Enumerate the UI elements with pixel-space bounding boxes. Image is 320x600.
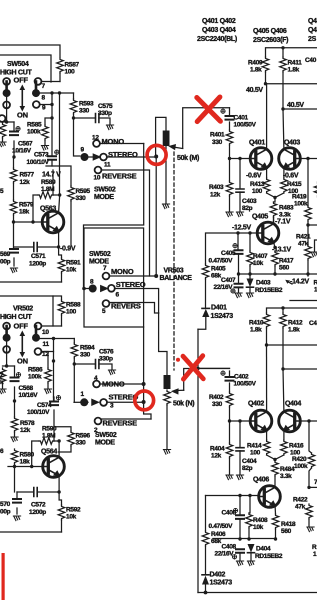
svg-text:40.5V: 40.5V: [246, 87, 263, 94]
svg-text:100/50V: 100/50V: [234, 381, 257, 388]
ground C570: [13, 516, 20, 521]
svg-text:Q402: Q402: [248, 401, 264, 408]
svg-text:OFF: OFF: [14, 76, 29, 85]
capacitor C402: [229, 371, 231, 392]
wire mono bottom: [100, 383, 144, 385]
svg-text:Q406: Q406: [253, 477, 269, 484]
svg-text:R420: R420: [292, 456, 307, 463]
svg-text:Q401: Q401: [249, 140, 265, 147]
capacitor C405: [237, 233, 240, 292]
resistor R414: [263, 440, 270, 455]
svg-text:11: 11: [104, 162, 111, 169]
svg-text:1.8k: 1.8k: [250, 67, 262, 74]
node R593: [72, 116, 75, 119]
resistor R578: [14, 401, 16, 417]
svg-text:SW504: SW504: [7, 61, 29, 68]
svg-text:10: 10: [94, 175, 101, 182]
svg-text:C407: C407: [221, 277, 236, 284]
svg-text:R483: R483: [279, 205, 294, 212]
svg-text:C567: C567: [18, 141, 33, 148]
wire top feed: [0, 45, 60, 57]
resistor R419: [307, 159, 309, 207]
svg-text:330: 330: [79, 108, 90, 115]
svg-text:SW502: SW502: [94, 187, 116, 194]
svg-text:Q405: Q405: [252, 214, 268, 221]
svg-text:10/16V: 10/16V: [19, 392, 39, 399]
svg-text:0.47/50V: 0.47/50V: [209, 523, 234, 530]
wire bottom rail top block: [0, 281, 62, 283]
svg-text:1.8k: 1.8k: [250, 327, 262, 334]
svg-text:10k: 10k: [253, 524, 264, 531]
svg-text:1.8k: 1.8k: [288, 67, 300, 74]
wire collector Q402: [266, 345, 268, 412]
ground right edge: [315, 240, 318, 251]
ground R578: [11, 437, 18, 442]
wire stereo top: [107, 156, 156, 158]
svg-text:SW502: SW502: [89, 251, 111, 258]
svg-text:1.8M: 1.8M: [41, 186, 54, 193]
svg-text:C406: C406: [222, 510, 237, 517]
svg-text:ON: ON: [17, 111, 28, 120]
wire emitter Q406: [274, 506, 276, 514]
svg-text:STEREO: STEREO: [108, 150, 138, 159]
svg-text:82p: 82p: [242, 465, 253, 472]
capacitor C407: [235, 284, 243, 288]
svg-text:10/16V: 10/16V: [12, 148, 32, 155]
svg-text:C402: C402: [234, 374, 249, 381]
wire emitter Q402: [266, 430, 268, 440]
wire stereo feed b: [73, 364, 75, 402]
resistor edge cut: [314, 182, 320, 197]
contact 12b: [35, 348, 42, 355]
node emitters join b: [273, 458, 276, 461]
resistor R579: [10, 200, 17, 215]
wire bottom rail b: [0, 531, 62, 533]
resistor R410: [263, 313, 270, 328]
contact 2 REVERSE bottom: [95, 418, 102, 425]
svg-text:12: 12: [92, 135, 99, 142]
svg-text:7: 7: [314, 479, 317, 486]
svg-text:1S2473: 1S2473: [210, 580, 233, 587]
svg-text:Q404: Q404: [285, 401, 301, 408]
svg-text:10k: 10k: [66, 514, 77, 521]
svg-text:R401: R401: [210, 132, 225, 139]
wire emitter: [58, 231, 60, 247]
svg-text:C404: C404: [242, 458, 257, 465]
svg-text:D404: D404: [256, 546, 271, 553]
svg-text:50k (N): 50k (N): [173, 401, 194, 408]
ground D403: [246, 293, 253, 298]
svg-text:-0.6V: -0.6V: [283, 173, 299, 180]
svg-text:R595: R595: [76, 188, 91, 195]
svg-text:C572: C572: [31, 502, 46, 509]
svg-text:R588: R588: [66, 302, 81, 309]
ground pot M: [162, 204, 169, 209]
resistor R418: [272, 514, 279, 529]
svg-text:11: 11: [43, 341, 50, 348]
svg-text:R405: R405: [211, 266, 226, 273]
svg-text:MODE: MODE: [95, 440, 115, 447]
ground C408: [236, 561, 243, 566]
svg-text:VR502: VR502: [13, 306, 33, 313]
svg-text:Q403 Q404: Q403 Q404: [202, 27, 236, 34]
resistor R415: [281, 178, 288, 193]
ground R404: [226, 475, 233, 480]
resistor R587: [57, 58, 64, 73]
capacitor C406: [239, 496, 241, 540]
wire stereo node down: [155, 157, 157, 277]
svg-text:1200p: 1200p: [29, 509, 46, 516]
rail bottom -14.2 right: [290, 300, 317, 302]
contact 10: [35, 323, 42, 330]
ground left edge: [0, 142, 6, 147]
svg-text:100k: 100k: [27, 129, 41, 136]
ground C569: [10, 268, 17, 273]
svg-text:18k: 18k: [19, 209, 30, 216]
wire stereo bottom: [107, 401, 143, 403]
svg-text:1.8k: 1.8k: [288, 327, 300, 334]
svg-text:R593: R593: [79, 101, 94, 108]
svg-text:100/50V: 100/50V: [234, 122, 257, 129]
svg-text:SW502: SW502: [95, 432, 117, 439]
resistor R591: [59, 247, 62, 258]
resistor R483: [274, 198, 276, 203]
svg-text:C573: C573: [34, 152, 49, 159]
svg-text:100: 100: [66, 309, 77, 316]
base node Q401: [228, 157, 231, 160]
wire emitter Q564: [58, 476, 60, 492]
svg-text:MODE: MODE: [89, 259, 109, 266]
svg-text:C571: C571: [31, 253, 46, 260]
svg-text:C40: C40: [305, 57, 317, 64]
pot VR503 top jog: [156, 117, 166, 156]
svg-text:R484: R484: [280, 466, 295, 473]
svg-text:C574: C574: [37, 402, 52, 409]
svg-text:R422: R422: [293, 497, 308, 504]
contact 10 REVERSE: [95, 167, 102, 174]
red X mark top: [197, 97, 221, 122]
capacitor C567: [13, 122, 15, 157]
rail mid 1: [265, 343, 268, 346]
svg-text:C568: C568: [19, 385, 34, 392]
svg-text:330p: 330p: [99, 356, 113, 363]
ground C403: [236, 212, 243, 217]
supply rail neg top: [267, 308, 318, 313]
svg-text:Q405 Q406: Q405 Q406: [253, 28, 287, 35]
wire left pole down: [3, 97, 15, 122]
switch arrow VR502: [21, 335, 23, 353]
resistor R417: [272, 251, 279, 266]
red circle top: [147, 145, 166, 164]
rail bottom cell: [213, 538, 276, 540]
node collector R589: [58, 193, 61, 196]
resistor R402: [226, 392, 233, 407]
capacitor C404: [239, 421, 241, 474]
resistor R411: [282, 48, 284, 57]
wire wiper to C401: [183, 108, 230, 149]
svg-text:14.7 V: 14.7 V: [42, 172, 61, 179]
svg-text:R414: R414: [247, 443, 262, 450]
svg-text:D401: D401: [211, 305, 227, 312]
svg-text:3.3k: 3.3k: [280, 473, 292, 480]
svg-text:R579: R579: [19, 202, 34, 209]
left contact pole filled: [3, 89, 11, 97]
left contact pole: [3, 78, 10, 85]
svg-text:Q403: Q403: [284, 140, 300, 147]
diode D401: [205, 279, 207, 308]
node -0.9V: [57, 245, 60, 248]
svg-text:R596: R596: [76, 433, 91, 440]
wire wiper N to C402: [184, 369, 230, 391]
svg-text:C403: C403: [242, 198, 257, 205]
svg-text:Q401 Q402: Q401 Q402: [202, 18, 236, 25]
svg-text:R577: R577: [20, 172, 35, 179]
svg-text:REVERSE: REVERSE: [102, 172, 137, 181]
svg-text:ON: ON: [17, 357, 28, 366]
capacitor C570: [15, 467, 18, 515]
ground pot N: [166, 405, 168, 449]
svg-text:R417: R417: [279, 258, 294, 265]
svg-text:R419: R419: [292, 194, 307, 201]
contact 9: [33, 101, 40, 108]
svg-text:R578: R578: [20, 420, 35, 427]
ground C575: [106, 125, 113, 130]
ground left edge b: [0, 389, 6, 394]
pot N wiper arrow: [177, 389, 184, 391]
base node Q402: [228, 419, 231, 422]
wire stereo mid: [115, 289, 159, 314]
diode D402: [202, 574, 209, 576]
diode D403: [247, 279, 254, 288]
svg-text:R410: R410: [249, 320, 264, 327]
dashed coupling line: [173, 152, 175, 370]
resistor left edge b: [0, 368, 6, 383]
wire base Q403: [301, 158, 309, 160]
svg-text:22/16V: 22/16V: [214, 284, 234, 291]
svg-text:OFF: OFF: [14, 322, 29, 331]
resistor R484: [272, 461, 279, 476]
contact 7 MONO mid: [103, 273, 110, 280]
svg-text:R589: R589: [41, 179, 56, 186]
svg-text:100: 100: [250, 450, 261, 457]
ground D404: [247, 561, 254, 566]
bus wire collector: [59, 93, 61, 195]
svg-text:C408: C408: [222, 544, 237, 551]
svg-text:10k: 10k: [66, 267, 77, 274]
svg-text:1S2473: 1S2473: [211, 313, 234, 320]
node emitter b: [57, 490, 60, 493]
resistor R589: [33, 170, 53, 222]
resistor R406: [205, 496, 207, 532]
base wire Q406: [198, 329, 259, 592]
resistor R580: [11, 449, 18, 464]
node rail R419: [306, 223, 309, 226]
node emitters join: [273, 196, 276, 199]
svg-text:1: 1: [314, 287, 317, 294]
svg-text:R413: R413: [250, 181, 265, 188]
resistor R595: [46, 166, 71, 245]
resistor R590: [32, 427, 54, 467]
node C573 top: [12, 155, 15, 158]
capacitor C401: [229, 108, 231, 130]
capacitor C408: [236, 549, 244, 553]
svg-text:R402: R402: [209, 394, 224, 401]
svg-text:HIGH CUT: HIGH CUT: [0, 314, 32, 321]
wire base Q404: [301, 420, 310, 422]
capacitor C575: [74, 118, 111, 124]
svg-text:REVERSE: REVERSE: [103, 419, 138, 428]
svg-text:R415: R415: [287, 181, 302, 188]
svg-text:-0.6V: -0.6V: [246, 173, 262, 180]
wire emitter Q401: [266, 168, 268, 178]
left pole lower: [3, 346, 10, 353]
resistor R405: [202, 264, 209, 279]
svg-text:12k: 12k: [210, 192, 221, 199]
svg-text:R594: R594: [80, 345, 95, 352]
svg-text:C576: C576: [99, 349, 114, 356]
diode D404: [248, 544, 255, 553]
wire reverse bottom: [102, 418, 152, 420]
wire reverse top: [102, 170, 150, 276]
rail 40.5V lower: [281, 107, 284, 110]
svg-text:R411: R411: [288, 60, 303, 67]
svg-text:R585: R585: [27, 122, 42, 129]
resistor left edge: [0, 123, 6, 138]
svg-text:R408: R408: [253, 517, 268, 524]
svg-text:VR503: VR503: [164, 268, 184, 275]
svg-text:50k (M): 50k (M): [177, 155, 199, 162]
svg-text:100: 100: [252, 188, 263, 195]
resistor R588: [53, 296, 62, 300]
wire emitter Q405: [274, 242, 275, 247]
svg-text:MONO: MONO: [102, 137, 125, 146]
svg-text:10: 10: [42, 329, 49, 336]
wire emitter Q404: [283, 430, 285, 440]
wire emitter Q403: [283, 168, 285, 178]
svg-text:MODE: MODE: [94, 194, 114, 201]
svg-text:RD15EB2: RD15EB2: [255, 553, 283, 560]
svg-text:1.8M: 1.8M: [42, 433, 55, 440]
feed bus C574: [53, 339, 55, 402]
svg-text:12k: 12k: [20, 179, 31, 186]
ground R585: [41, 146, 48, 151]
svg-text:C405: C405: [221, 250, 236, 257]
wire collector Q405: [273, 217, 275, 224]
svg-text:10k: 10k: [253, 260, 264, 267]
svg-text:0.47/50V: 0.47/50V: [209, 258, 234, 265]
svg-text:569: 569: [0, 251, 11, 258]
resistor R404: [229, 421, 231, 443]
svg-text:330: 330: [80, 352, 91, 359]
svg-text:100k: 100k: [294, 463, 308, 470]
svg-text:100/10V: 100/10V: [27, 409, 50, 416]
resistor R412: [282, 308, 284, 313]
capacitor C568: [14, 366, 16, 401]
resistor R596: [54, 427, 71, 452]
contact 7: [35, 78, 42, 85]
resistor R592: [59, 492, 61, 505]
svg-text:12k: 12k: [211, 453, 222, 460]
contact 6 STEREO mid: [84, 288, 90, 290]
svg-text:R421: R421: [296, 234, 311, 241]
svg-text:BALANCE: BALANCE: [160, 275, 193, 282]
resistor R593: [73, 93, 75, 99]
resistor R403: [229, 159, 231, 182]
resistor R408: [249, 496, 250, 514]
pot wiper arrow: [175, 147, 183, 148]
svg-text:330: 330: [76, 440, 87, 447]
resistor R594: [73, 339, 75, 344]
capacitor C573: [51, 93, 53, 166]
resistor R407: [249, 233, 251, 251]
svg-text:R416: R416: [289, 443, 304, 450]
svg-text:D403: D403: [256, 280, 271, 287]
svg-text:RD15EB2: RD15EB2: [255, 287, 283, 294]
capacitor C403: [239, 159, 241, 212]
resistor R420: [309, 421, 312, 453]
ground C407: [235, 293, 242, 298]
wire mono vertical: [84, 144, 144, 289]
red speck: [176, 358, 180, 362]
svg-text:C4: C4: [309, 320, 317, 327]
wire reverse mid: [110, 303, 159, 314]
contact 11: [32, 334, 40, 342]
rail R420: [307, 486, 310, 489]
svg-text:100: 100: [65, 69, 76, 76]
potentiometer 50k(N): [164, 375, 171, 389]
svg-text:R404: R404: [210, 446, 225, 453]
svg-text:-12.5V: -12.5V: [232, 225, 251, 232]
svg-text:R580: R580: [20, 452, 35, 459]
svg-text:330: 330: [76, 195, 87, 202]
rail bottom: [198, 592, 317, 594]
capacitor C569: [13, 222, 16, 266]
rail -14.2V: [239, 273, 318, 275]
red X mark bottom: [183, 356, 203, 380]
svg-text:570: 570: [0, 501, 11, 508]
capacitor C571: [14, 246, 59, 248]
left contact pole lower: [3, 102, 10, 109]
box SW502 middle: [84, 228, 144, 327]
contact 5 REVERS mid: [103, 300, 110, 307]
svg-text:R586: R586: [28, 367, 43, 374]
wire collector Q406: [274, 486, 276, 488]
contact 4 MONO bottom: [93, 381, 100, 388]
svg-text:-7.1V: -7.1V: [275, 219, 291, 226]
svg-text:22/16V: 22/16V: [215, 551, 235, 558]
svg-text:00p: 00p: [0, 259, 11, 266]
svg-text:40.5V: 40.5V: [287, 102, 304, 109]
svg-text:47k: 47k: [298, 241, 309, 248]
svg-text:00p: 00p: [0, 509, 11, 516]
svg-text:R587: R587: [65, 62, 80, 69]
svg-text:1200p: 1200p: [29, 261, 46, 268]
svg-text:2SC2603(F): 2SC2603(F): [253, 37, 288, 44]
wire collector Q403: [282, 109, 285, 149]
resistor R416: [281, 440, 288, 455]
svg-text:R591: R591: [66, 260, 81, 267]
wire collector Q564: [53, 441, 59, 457]
svg-text:560: 560: [281, 528, 292, 535]
rail mid 2: [281, 367, 284, 370]
svg-text:18k: 18k: [20, 459, 31, 466]
node stereo top: [154, 155, 158, 159]
svg-text:2S: 2S: [308, 36, 317, 43]
svg-text:100/10V: 100/10V: [27, 159, 50, 166]
supply rail top: [266, 48, 318, 57]
base wire Q405: [206, 233, 258, 264]
resistor R421: [307, 225, 309, 245]
